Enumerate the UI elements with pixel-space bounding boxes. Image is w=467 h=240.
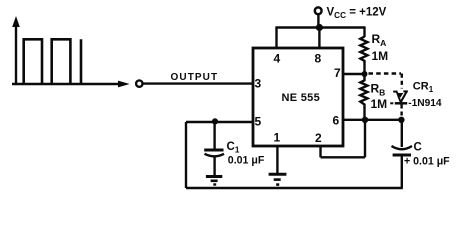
waveform vertical axis	[12, 16, 20, 84]
svg-text:-1N914: -1N914	[408, 98, 442, 109]
wire pin 6	[344, 119, 402, 121]
wire pin 4 riser	[275, 28, 277, 50]
wire Vcc stem	[317, 15, 319, 28]
svg-text:2: 2	[315, 131, 322, 145]
junction dot pin6 at C branch	[398, 117, 404, 123]
svg-text:OUTPUT: OUTPUT	[171, 72, 219, 83]
svg-text:6: 6	[333, 114, 340, 128]
resistor RB	[360, 74, 367, 108]
svg-text:1M: 1M	[372, 49, 389, 63]
svg-text:0.01 μF: 0.01 μF	[228, 155, 265, 167]
Vcc terminal open circle	[315, 7, 322, 14]
output terminal open circle	[136, 80, 142, 86]
capacitor C curved plate	[392, 146, 413, 149]
svg-text:4: 4	[274, 52, 281, 66]
svg-text:1M: 1M	[371, 97, 388, 111]
svg-text:7: 7	[334, 66, 341, 80]
wire bottom loop left vertical	[185, 122, 187, 188]
svg-text:NE 555: NE 555	[282, 92, 321, 104]
svg-text:5: 5	[255, 115, 262, 129]
svg-text:3: 3	[255, 77, 262, 91]
waveform square-wave trace	[24, 39, 81, 84]
diode CR1 top corner ticks	[393, 91, 397, 93]
op IC U1 NE 555 body	[253, 48, 343, 146]
wire pin 7	[344, 73, 365, 75]
wire bottom loop horizontal	[186, 187, 403, 189]
diode CR1 arrow fill	[397, 93, 403, 98]
wire capacitor C to bottom loop	[401, 156, 403, 188]
wire pin 2 up to pin6 node	[364, 120, 366, 158]
dashed wire pin7 node to CR1 (horizontal)	[369, 72, 402, 74]
wire output terminal to pin 3	[143, 82, 253, 84]
wire Vcc bus	[275, 26, 364, 28]
wire pin 2 drop	[319, 145, 321, 157]
dashed wire CR1 cathode to pin6 wire	[400, 105, 402, 119]
junction dot pin6 at RB	[362, 117, 368, 123]
svg-text:8: 8	[315, 52, 322, 66]
wire C1 to ground	[213, 156, 215, 176]
ground symbol pin 1	[269, 174, 287, 184]
diode CR1 triangle sides	[397, 92, 401, 101]
junction dot pin5 at C1	[212, 118, 218, 124]
dash left of cathode	[390, 102, 393, 104]
junction dot at Vcc bus	[316, 24, 323, 31]
wire pin5 node down to C1	[213, 121, 215, 149]
capacitor C1 straight plate	[204, 149, 223, 152]
wire pin6 node down to capacitor C	[401, 120, 403, 147]
svg-text:C: C	[414, 142, 422, 154]
wire pin 8 riser	[318, 28, 320, 50]
waveform horizontal axis	[12, 81, 130, 88]
wire pin 1 down	[276, 145, 278, 173]
diode CR1 cathode bar	[395, 102, 407, 105]
junction dot pin 7 node	[362, 71, 368, 77]
svg-text:+ 0.01 μF: + 0.01 μF	[404, 156, 450, 168]
svg-text:1: 1	[274, 131, 281, 145]
capacitor C1 curved plate	[205, 154, 225, 157]
capacitor C straight plate	[393, 154, 411, 157]
wire pin 5	[186, 121, 253, 123]
dashed wire CR1 anode drop (vertical)	[401, 74, 403, 89]
wire RB to pin6 node	[363, 107, 365, 120]
ground symbol below C1	[206, 177, 222, 185]
wire bus to RA	[363, 26, 365, 37]
resistor RA	[360, 37, 367, 63]
wire pin 2 horizontal	[321, 156, 366, 158]
wire RA to pin7 node	[363, 62, 365, 74]
